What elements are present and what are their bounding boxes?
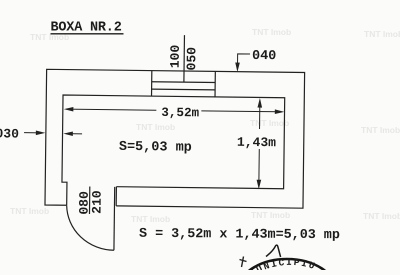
svg-text:TNT Imob: TNT Imob: [364, 29, 400, 39]
svg-text:TNT Imob: TNT Imob: [252, 27, 291, 37]
svg-text:030: 030: [0, 126, 19, 141]
svg-text:S = 3,52m x 1,43m=5,03 mp: S = 3,52m x 1,43m=5,03 mp: [139, 227, 340, 243]
svg-text:TNT Imob: TNT Imob: [363, 211, 400, 221]
svg-text:050: 050: [184, 47, 199, 71]
svg-text:TNT Imob: TNT Imob: [131, 214, 170, 224]
svg-text:1,43m: 1,43m: [237, 135, 276, 150]
svg-text:TNT Imob: TNT Imob: [250, 118, 289, 128]
svg-text:S=5,03 mp: S=5,03 mp: [119, 140, 192, 156]
svg-text:TNT Imob: TNT Imob: [10, 206, 49, 216]
svg-text:040: 040: [252, 49, 276, 64]
svg-text:TNT Imob: TNT Imob: [251, 210, 290, 220]
svg-text:100: 100: [168, 45, 183, 69]
svg-text:3,52m: 3,52m: [161, 106, 199, 120]
svg-text:210: 210: [89, 190, 104, 214]
svg-text:TNT Imob: TNT Imob: [136, 122, 175, 132]
svg-text:TNT Imob: TNT Imob: [361, 125, 400, 135]
svg-text:MUNICIPIU: MUNICIPIU: [247, 257, 317, 270]
